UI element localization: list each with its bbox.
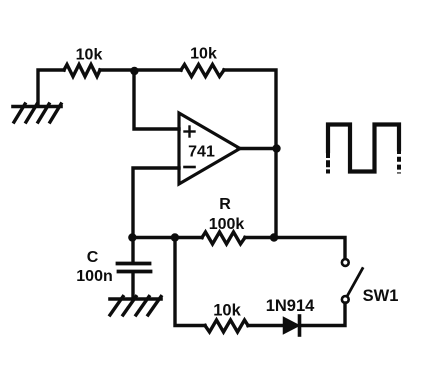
svg-text:10k: 10k: [76, 47, 103, 64]
resistor R2 10k (top feedback): [181, 65, 224, 77]
op-amp plus pin mark: [185, 127, 195, 137]
wire non-inverting input: [134, 71, 179, 129]
svg-text:100n: 100n: [76, 268, 112, 285]
capacitor C1 top plate: [118, 262, 150, 266]
svg-text:10k: 10k: [190, 46, 217, 63]
ground G2 (below capacitor): [110, 297, 161, 316]
switch SW1 top contact: [342, 259, 349, 266]
op-amp minus pin mark: [185, 166, 195, 169]
square wave output symbol: [328, 125, 399, 172]
wire node A to R2: [134, 68, 181, 71]
capacitor C1 top lead: [131, 238, 134, 262]
node A junction dot: [130, 67, 138, 75]
wire inverting input: [133, 168, 179, 238]
resistor R3 100k: [202, 232, 245, 244]
wire op-amp output: [238, 147, 276, 150]
wire R row left segment: [132, 236, 202, 239]
svg-text:10k: 10k: [213, 302, 241, 320]
diode D1 1N914 triangle: [284, 318, 300, 334]
wire diode to R4: [248, 324, 284, 327]
wire R3 to switch corner: [245, 238, 345, 260]
node C junction dot (cap / inverting): [128, 233, 136, 241]
op-amp U1 triangle: [179, 113, 240, 184]
resistor R1 10k (top-left): [64, 65, 100, 77]
wire R4 to left corner up to node D: [175, 238, 205, 326]
svg-text:741: 741: [188, 144, 215, 161]
square wave faded right edge: [397, 149, 401, 174]
wire ground G1 to top rail: [38, 70, 64, 106]
node E junction dot (rail meets R row): [270, 233, 278, 241]
svg-text:1N914: 1N914: [266, 297, 315, 315]
wire R1 to node A: [100, 68, 134, 71]
node D junction dot (to bottom branch): [171, 233, 179, 241]
square wave faded left edge: [326, 151, 330, 174]
svg-text:R: R: [219, 196, 231, 213]
capacitor C1 bottom lead: [131, 273, 134, 298]
wire right rail down to R row: [274, 148, 277, 238]
diode D1 1N914 cathode bar: [298, 316, 302, 335]
wire switch to bottom row: [302, 303, 345, 326]
resistor R4 10k (bottom): [205, 320, 248, 332]
switch SW1 lever: [348, 269, 363, 296]
ground G1 (top-left): [13, 104, 61, 122]
switch SW1 bottom contact: [342, 296, 349, 303]
svg-text:100k: 100k: [209, 216, 245, 233]
wire R2 to right rail corner: [224, 70, 276, 148]
node B output junction dot: [272, 144, 280, 152]
capacitor C1 bottom plate: [119, 270, 151, 274]
svg-text:SW1: SW1: [363, 287, 399, 305]
svg-text:C: C: [87, 249, 99, 266]
